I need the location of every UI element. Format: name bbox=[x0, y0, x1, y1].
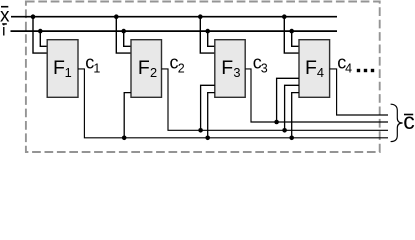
svg-text:F: F bbox=[305, 57, 317, 79]
svg-text:F: F bbox=[138, 57, 150, 79]
svg-text:4: 4 bbox=[317, 65, 324, 80]
svg-text:1: 1 bbox=[65, 65, 72, 80]
svg-text:2: 2 bbox=[178, 61, 185, 75]
svg-text:F: F bbox=[221, 57, 233, 79]
svg-text:c: c bbox=[403, 108, 415, 134]
svg-text:4: 4 bbox=[345, 61, 352, 75]
svg-text:3: 3 bbox=[261, 61, 268, 75]
svg-text:3: 3 bbox=[233, 65, 240, 80]
svg-text:i: i bbox=[2, 22, 6, 39]
svg-text:F: F bbox=[53, 57, 65, 79]
svg-text:2: 2 bbox=[150, 65, 157, 80]
svg-text:1: 1 bbox=[93, 61, 100, 75]
